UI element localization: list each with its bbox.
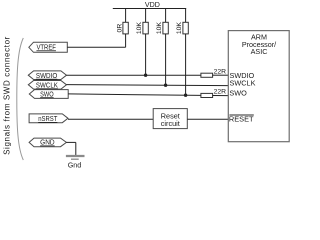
wire GND vertical drop bbox=[75, 142, 77, 155]
brace grouping SWD signals bbox=[17, 38, 24, 160]
wire VTREF horizontal bbox=[67, 46, 125, 48]
svg-text:SWCLK: SWCLK bbox=[230, 78, 256, 87]
wire column R4 top bbox=[185, 9, 187, 23]
ground symbol bbox=[66, 156, 85, 159]
resistor R6 body bbox=[201, 93, 213, 97]
wire column R3 bottom bbox=[165, 34, 167, 85]
pin label SWDIO bbox=[230, 71, 255, 80]
value label 22R bbox=[214, 88, 227, 95]
pin label SWCLK bbox=[230, 78, 256, 87]
svg-text:SWCLK: SWCLK bbox=[36, 80, 58, 89]
wire SWO right segment bbox=[213, 95, 229, 97]
reset circuit block bbox=[153, 109, 187, 129]
wire reset circuit to RESET pin bbox=[187, 118, 228, 120]
svg-text:ASIC: ASIC bbox=[251, 47, 268, 56]
svg-text:Signals from SWD connector: Signals from SWD connector bbox=[2, 36, 11, 155]
svg-text:SWO: SWO bbox=[40, 89, 54, 98]
resistor R2 body bbox=[143, 22, 148, 34]
svg-text:SWO: SWO bbox=[229, 89, 247, 98]
resistor R5 body bbox=[201, 73, 213, 77]
value label 0R bbox=[116, 24, 123, 33]
svg-text:10K: 10K bbox=[136, 22, 143, 35]
pin label SWO bbox=[229, 89, 247, 98]
wire SWDIO left segment bbox=[67, 74, 202, 76]
wire SWO left segment bbox=[68, 94, 201, 96]
wire VDD rail bbox=[113, 8, 186, 10]
port tag SWCLK bbox=[28, 80, 66, 89]
wire column R4 bottom bbox=[185, 34, 187, 95]
junction dot SWO/R4 bbox=[184, 94, 187, 97]
side caption Signals from SWD connector bbox=[2, 36, 11, 155]
svg-text:VTREF: VTREF bbox=[36, 42, 56, 51]
port tag nSRST bbox=[29, 114, 68, 123]
junction dot SWCLK/R3 bbox=[164, 84, 167, 87]
svg-text:nSRST: nSRST bbox=[38, 114, 57, 123]
ARM processor box U1 bbox=[228, 31, 289, 142]
svg-text:Gnd: Gnd bbox=[68, 160, 82, 169]
resistor R4 body bbox=[183, 22, 188, 34]
value label 10K bbox=[136, 22, 143, 35]
svg-text:VDD: VDD bbox=[145, 1, 160, 9]
value label 22R bbox=[214, 68, 227, 75]
wire column R1 bottom bbox=[125, 34, 127, 47]
junction dot SWDIO/R2 bbox=[144, 74, 147, 77]
pin label RESET (active low, overbar) bbox=[229, 115, 254, 124]
ground label Gnd bbox=[68, 160, 82, 169]
wire SWCLK bbox=[67, 85, 229, 86]
svg-text:GND: GND bbox=[40, 138, 55, 147]
svg-text:circuit: circuit bbox=[161, 119, 180, 128]
svg-text:SWDIO: SWDIO bbox=[36, 71, 58, 80]
svg-text:0R: 0R bbox=[116, 24, 123, 33]
wire GND horizontal bbox=[66, 141, 75, 143]
svg-text:10K: 10K bbox=[176, 22, 183, 35]
resistor R3 body bbox=[163, 22, 168, 34]
wire nSRST to reset circuit bbox=[68, 118, 153, 120]
port tag VTREF bbox=[29, 42, 68, 52]
net label VDD bbox=[145, 1, 160, 9]
value label 10K bbox=[156, 22, 163, 35]
svg-text:RESET: RESET bbox=[229, 115, 254, 124]
svg-text:22R: 22R bbox=[214, 88, 227, 95]
wire column R2 top bbox=[145, 9, 147, 23]
port tag SWDIO bbox=[28, 71, 66, 80]
port tag GND bbox=[29, 138, 66, 147]
resistor R1 body bbox=[123, 22, 128, 34]
svg-text:22R: 22R bbox=[214, 68, 227, 75]
port tag SWO bbox=[29, 89, 68, 98]
wire column R2 bottom bbox=[145, 34, 147, 75]
wire column R3 top bbox=[165, 9, 167, 23]
svg-text:10K: 10K bbox=[156, 22, 163, 35]
wire SWDIO right segment bbox=[213, 74, 229, 76]
value label 10K bbox=[176, 22, 183, 35]
wire column R1 top bbox=[125, 9, 127, 23]
